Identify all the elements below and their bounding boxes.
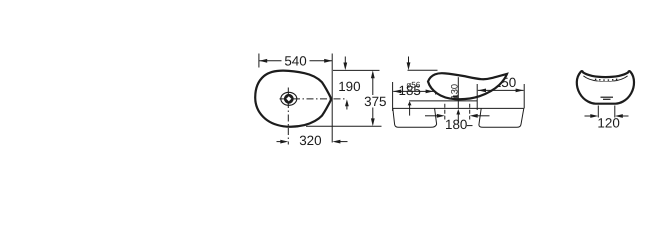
height dim down arrow [408,57,410,66]
svg-text:190: 190 [338,79,360,94]
height dim bottom contact line [409,100,477,102]
side profile basin outline [428,73,507,99]
front view drain lines [601,96,614,98]
dimension 120 right arrow [615,114,623,118]
dimension 320 left arrow (points right at drain centerline) [277,141,284,143]
front view rim back edge arc [598,80,614,83]
counter band left piece [393,108,437,127]
height dim top tangent line [408,69,438,71]
dimension 540 line + arrows [259,60,332,62]
front view bowl outline [577,71,634,104]
vertical centerline (dash-dot, through drain down to 320 dim) [287,88,289,145]
counter band right piece [479,108,524,127]
side view drain marks [453,95,458,97]
dimension 540 extension line right (runs down to 320 dim) [331,54,333,143]
dimension 180 right arrow [470,114,478,118]
small tick right of 180 text [467,125,473,127]
rim dots [595,79,617,81]
horizontal centerline (dash-dot) [280,98,345,100]
dimension 150 line + arrows [478,89,524,91]
dimension 180 left extension (dashed) [444,104,446,120]
svg-text:120: 120 [597,116,619,131]
dimension 190 top arrow (down) [344,57,346,66]
dimension 180 right extension (dashed) [469,104,471,120]
top view basin outline (egg shape) [255,71,331,127]
drain white diamond center [286,96,291,101]
dimension 120 extension lines [597,106,599,118]
dimension 130 line [457,77,459,108]
front view rim inner curve right [614,76,628,81]
dimension 375 bottom extension line (egg bottom tangent) [306,125,382,127]
svg-text:180: 180 [445,117,467,132]
svg-text:ø56: ø56 [406,80,421,89]
svg-text:320: 320 [299,133,321,148]
dimension 185 extension line [392,82,394,111]
dimension 540 extension line left [258,54,260,68]
drain outer ellipse [281,92,297,105]
counter top line (behind bands) [393,107,524,109]
dimension 375 line + arrows [372,75,374,95]
dimension 180 left arrow [425,115,441,117]
dimension 320 right arrow (points left at egg tip extension) [332,140,340,144]
dimension 150 extension line left [476,84,478,110]
drain inner dark circle [284,94,294,104]
dimension 120 left arrow [585,115,595,117]
dimension 190 bottom arrow (up to centerline) [345,99,349,106]
dimension 150 extension line right [523,84,525,108]
dimension 185 line + arrows [393,90,433,92]
height dim up arrow [408,101,412,105]
dimension 130 up arrow + tail through text below [456,109,460,115]
front view rim inner curve left [583,76,597,81]
tick on basin left tip [435,83,437,95]
svg-text:375: 375 [364,94,386,109]
svg-text:540: 540 [284,53,306,68]
dimension 190 top extension line (egg top tangent) [333,69,380,71]
